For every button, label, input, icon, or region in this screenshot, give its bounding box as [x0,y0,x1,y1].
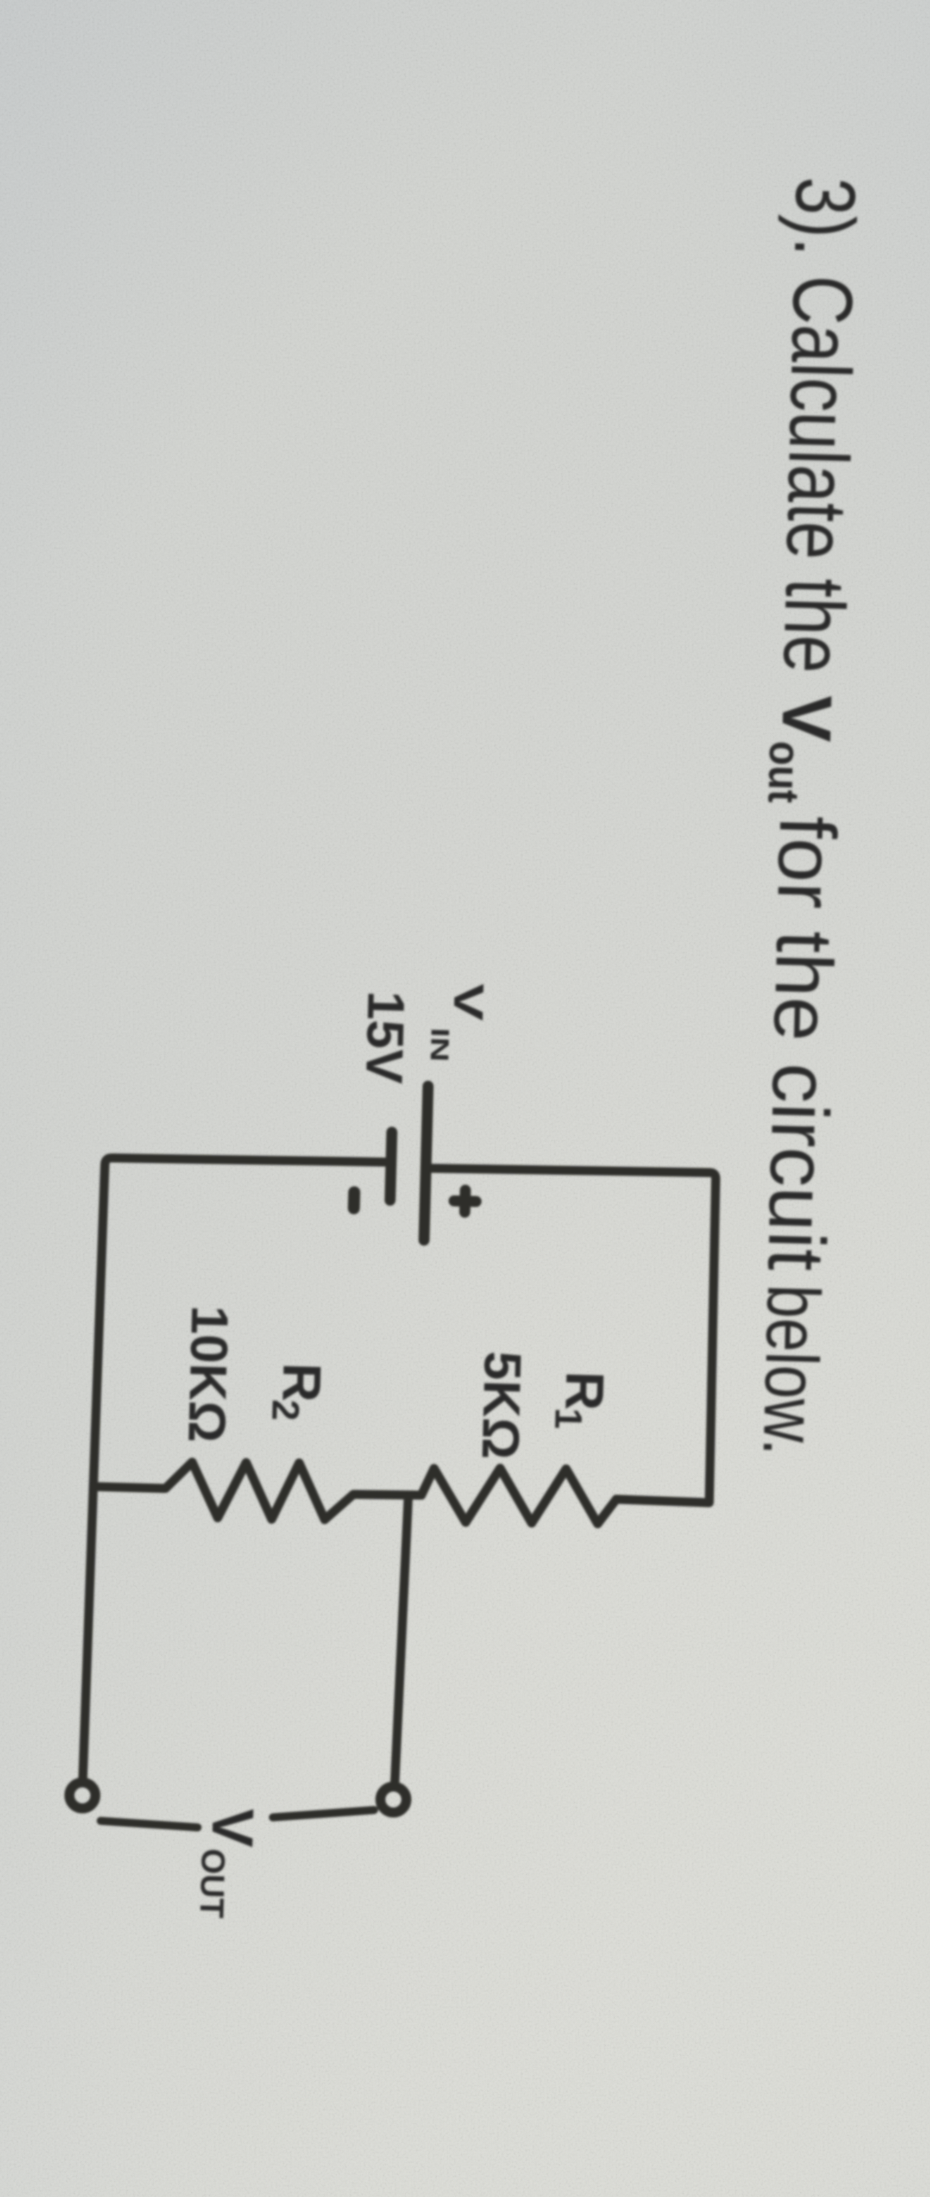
Vout right lead dash [273,1807,374,1820]
svg-text:3). Calculate the: 3). Calculate the [766,176,873,674]
label V_OUT [193,1807,265,1919]
battery V_IN: short plate (negative) [390,1132,392,1200]
wire top rail right segment + right wire down to mid rail [421,1165,718,1502]
svg-text:for the circuit: for the circuit [751,815,852,1272]
svg-text:5KΩ: 5KΩ [470,1350,531,1460]
battery minus sign [348,1192,360,1208]
svg-text:10KΩ: 10KΩ [177,1305,239,1444]
battery plus sign [454,1190,477,1213]
label R2 [176,1305,616,1463]
left output terminal [69,1782,96,1809]
svg-text:15V: 15V [354,990,414,1084]
battery V_IN: long plate (positive) [424,1086,428,1240]
scene: schematic photographed rotated 90deg CW plus slight camera tilt [66,159,873,1935]
Vout left lead dash [101,1821,198,1828]
right output terminal [380,1786,407,1813]
mid rail with resistor zigzags: left stub + R2 + node link + R1 + right link [93,1457,617,1529]
node wire down from divider node [395,1496,408,1782]
title: problem statement text (rotated 90deg) [742,176,873,1457]
label V_IN [354,980,492,1086]
svg-text:below.: below. [748,1284,835,1457]
wire top-left loop: top rail left segment + left wire [83,1155,386,1786]
